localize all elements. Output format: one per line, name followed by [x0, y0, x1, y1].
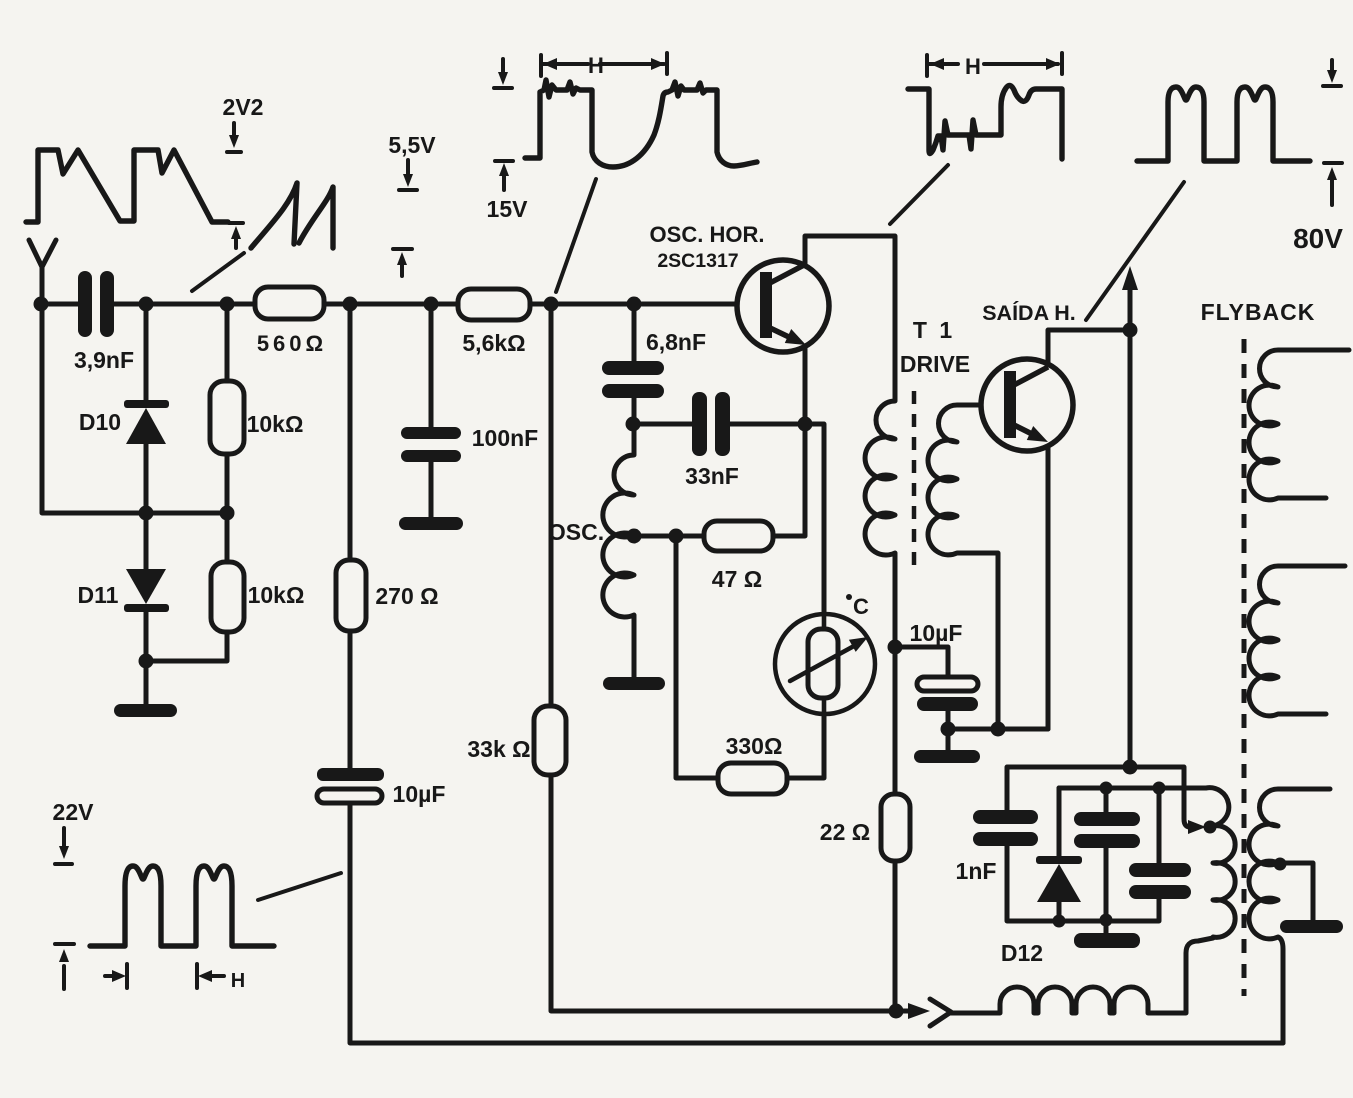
svg-text:22 Ω: 22 Ω [820, 819, 870, 845]
svg-text:33k Ω: 33k Ω [467, 736, 530, 762]
svg-text:D12: D12 [1001, 940, 1043, 966]
svg-text:T 1: T 1 [913, 317, 955, 343]
svg-text:330Ω: 330Ω [726, 733, 783, 759]
svg-text:OSC.: OSC. [548, 519, 604, 545]
svg-text:H: H [231, 970, 245, 992]
svg-text:15V: 15V [487, 196, 529, 222]
svg-text:H: H [588, 53, 604, 78]
svg-text:100nF: 100nF [472, 425, 538, 451]
svg-text:10µF: 10µF [910, 620, 963, 646]
svg-text:FLYBACK: FLYBACK [1201, 299, 1316, 325]
svg-text:5,6kΩ: 5,6kΩ [462, 330, 525, 356]
svg-text:OSC. HOR.: OSC. HOR. [650, 222, 765, 247]
svg-text:D11: D11 [78, 582, 119, 608]
svg-text:270 Ω: 270 Ω [375, 583, 438, 609]
svg-text:10µF: 10µF [393, 781, 446, 807]
svg-text:3,9nF: 3,9nF [74, 347, 134, 373]
svg-text:33nF: 33nF [685, 463, 739, 489]
svg-text:80V: 80V [1293, 223, 1343, 254]
svg-text:6,8nF: 6,8nF [646, 329, 706, 355]
svg-text:5,5V: 5,5V [388, 132, 436, 158]
svg-text:SAÍDA H.: SAÍDA H. [982, 300, 1076, 325]
svg-text:1nF: 1nF [956, 858, 997, 884]
svg-text:560Ω: 560Ω [257, 331, 327, 356]
svg-text:22V: 22V [53, 799, 95, 825]
svg-text:D10: D10 [79, 409, 121, 435]
svg-text:10kΩ: 10kΩ [248, 582, 305, 608]
svg-text:2SC1317: 2SC1317 [657, 250, 738, 272]
svg-text:47 Ω: 47 Ω [712, 566, 762, 592]
svg-text:2V2: 2V2 [223, 94, 264, 120]
svg-text:DRIVE: DRIVE [900, 351, 970, 377]
svg-text:H: H [965, 54, 981, 79]
svg-text:10kΩ: 10kΩ [247, 411, 304, 437]
svg-text:C: C [853, 594, 869, 619]
